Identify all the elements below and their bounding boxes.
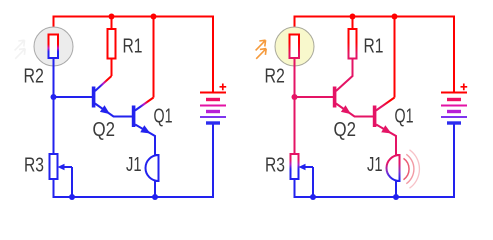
wire: Q1 collector to rail xyxy=(394,17,396,98)
wire: node A down to R3 xyxy=(294,97,296,154)
Q1 emitter arrowhead xyxy=(381,125,391,133)
transistor Q1 bar xyxy=(373,106,377,128)
wire: node A to Q2 base xyxy=(54,96,93,98)
svg-text:R1: R1 xyxy=(123,36,143,58)
battery B1 plates xyxy=(441,93,467,124)
wire: R2 bottom to node A xyxy=(53,58,55,97)
wire: bottom 0V rail from R3 bottom to battery - xyxy=(295,123,455,198)
wire: R1 bottom to Q2 collector xyxy=(336,59,353,92)
svg-text:R3: R3 xyxy=(265,155,285,177)
wire: J1 bottom to rail xyxy=(154,181,156,197)
svg-text:J1: J1 xyxy=(367,154,383,176)
wire: R3 wiper to bottom rail xyxy=(71,167,73,197)
R3 wiper arrow xyxy=(301,166,313,168)
wire: bottom 0V rail from R3 bottom to battery - xyxy=(54,123,214,198)
junction dot above R1 xyxy=(109,14,115,20)
LDR R2 body (glowing circle) xyxy=(275,27,314,66)
svg-text:R2: R2 xyxy=(24,66,44,88)
Q2 emitter arrowhead xyxy=(341,105,351,114)
light rays on R2 (bright) xyxy=(256,40,267,59)
svg-text:Q1: Q1 xyxy=(395,105,414,127)
transistor Q2 emitter to Q1 base xyxy=(336,104,373,117)
wire: R3 wiper to bottom rail xyxy=(312,167,314,197)
Q1 emitter arrowhead xyxy=(140,125,150,133)
potentiometer R3 xyxy=(291,154,299,179)
transistor Q1 emitter wire down to J1 xyxy=(135,125,155,156)
resistor R1 xyxy=(349,29,357,59)
junction dot at J1 bottom xyxy=(393,194,399,200)
wire: Q1 collector to rail xyxy=(153,17,155,98)
transistor Q1 bar xyxy=(132,106,136,128)
battery B1 plates xyxy=(200,93,226,124)
node A junction dot xyxy=(51,94,57,100)
wire: top positive rail from R2 top to battery + xyxy=(54,17,214,93)
svg-text:R1: R1 xyxy=(364,36,384,58)
transistor Q2 emitter to Q1 base xyxy=(95,104,132,117)
svg-text:Q2: Q2 xyxy=(93,119,116,141)
transistor Q2 bar xyxy=(92,87,96,108)
wire: R1 top to rail xyxy=(111,17,113,30)
battery + sign xyxy=(220,84,227,91)
junction dot at wiper bottom xyxy=(310,194,316,200)
battery + sign xyxy=(461,84,468,91)
junction dot at wiper bottom xyxy=(69,194,75,200)
LDR R2 resistor element xyxy=(49,35,59,59)
svg-text:R3: R3 xyxy=(24,155,44,177)
node A junction dot xyxy=(292,94,298,100)
transistor Q1 emitter wire down to J1 xyxy=(376,125,396,156)
light rays on R2 (dark) xyxy=(15,40,26,59)
svg-text:Q1: Q1 xyxy=(154,105,173,127)
wire: J1 bottom to rail xyxy=(395,181,397,197)
transistor Q2 bar xyxy=(333,87,337,108)
wire: node A down to R3 xyxy=(53,97,55,154)
junction dot above Q1 xyxy=(151,14,157,20)
LDR R2 body (circle) xyxy=(34,27,73,66)
LDR R2 resistor element xyxy=(290,35,300,59)
svg-text:Q2: Q2 xyxy=(334,119,357,141)
svg-text:J1: J1 xyxy=(126,154,142,176)
sound waves from J1 xyxy=(404,158,410,179)
speaker J1 xyxy=(155,155,159,181)
svg-text:R2: R2 xyxy=(265,66,285,88)
Q2 emitter arrowhead xyxy=(100,105,110,114)
junction dot above Q1 xyxy=(392,14,398,20)
wire: top positive rail from R2 top to battery + xyxy=(295,17,455,93)
R3 wiper arrow xyxy=(60,166,72,168)
wire: R1 bottom to Q2 collector xyxy=(111,59,113,77)
wire: R2 bottom to node A xyxy=(294,58,296,97)
resistor R1 xyxy=(108,29,116,59)
wire: node A to Q2 base xyxy=(295,96,334,98)
junction dot above R1 xyxy=(350,14,356,20)
speaker J1 xyxy=(396,155,400,181)
potentiometer R3 xyxy=(50,154,58,179)
junction dot at J1 bottom xyxy=(152,194,158,200)
wire: R1 top to rail xyxy=(352,17,354,30)
